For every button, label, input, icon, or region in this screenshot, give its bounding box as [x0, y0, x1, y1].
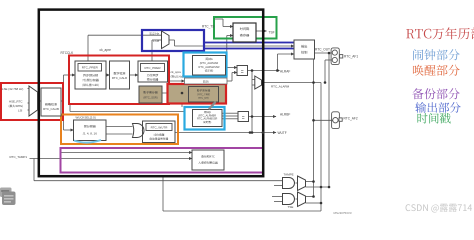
svg-text:TSE: TSE [288, 205, 294, 209]
svg-text:RTC_TAMP1: RTC_TAMP1 [10, 155, 28, 159]
svg-text:RTC_ALRMBSSR: RTC_ALRMBSSR [197, 118, 217, 121]
svg-text:RTC_ALRMASSR: RTC_ALRMASSR [199, 65, 220, 69]
svg-text:MSv30753V3: MSv30753V3 [334, 211, 352, 215]
svg-text:1 Hz: 1 Hz [153, 39, 160, 43]
svg-text:WUTF: WUTF [278, 131, 287, 135]
svg-text:HSE_RTC: HSE_RTC [9, 100, 22, 104]
svg-text:RTC_CALIB: RTC_CALIB [43, 107, 59, 111]
svg-text:ck_apre: ck_apre [100, 48, 112, 52]
svg-text:(RTC_SSR): (RTC_SSR) [143, 96, 157, 100]
svg-text:TSF: TSF [269, 31, 275, 35]
svg-text:LSI: LSI [18, 109, 23, 113]
svg-text:=: = [242, 116, 245, 122]
svg-text:ck_spre: ck_spre [171, 70, 182, 74]
svg-text:RTC_AF1: RTC_AF1 [344, 55, 358, 59]
svg-text:/2, 4, 8, 16: /2, 4, 8, 16 [83, 132, 98, 136]
svg-text:RTC_PRER: RTC_PRER [82, 66, 99, 70]
svg-text:ALRAF: ALRAF [280, 69, 290, 73]
svg-text:(RTC_ALRMAR: (RTC_ALRMAR [200, 61, 219, 65]
svg-text:TAMPE: TAMPE [284, 173, 294, 177]
svg-text:RTC_AF2: RTC_AF2 [344, 117, 358, 121]
svg-text:ALRBF: ALRBF [280, 113, 290, 117]
svg-text:=: = [241, 70, 244, 76]
svg-text:512 Hz: 512 Hz [150, 32, 160, 36]
svg-text:LSE (32.768 Hz): LSE (32.768 Hz) [2, 87, 23, 91]
svg-text:RTC_WUTR: RTC_WUTR [151, 126, 169, 130]
svg-text:RTC_ALARM: RTC_ALARM [271, 85, 290, 89]
svg-text:RTC_TS: RTC_TS [202, 25, 214, 29]
svg-text:RTC_PRER: RTC_PRER [144, 66, 161, 70]
svg-text:WUCKSEL[2:0]: WUCKSEL[2:0] [76, 116, 96, 120]
svg-text:RTC_CALR: RTC_CALR [112, 76, 127, 80]
svg-text:RTC_OUT: RTC_OUT [315, 48, 330, 52]
svg-text:RTCCLK: RTCCLK [61, 51, 75, 55]
